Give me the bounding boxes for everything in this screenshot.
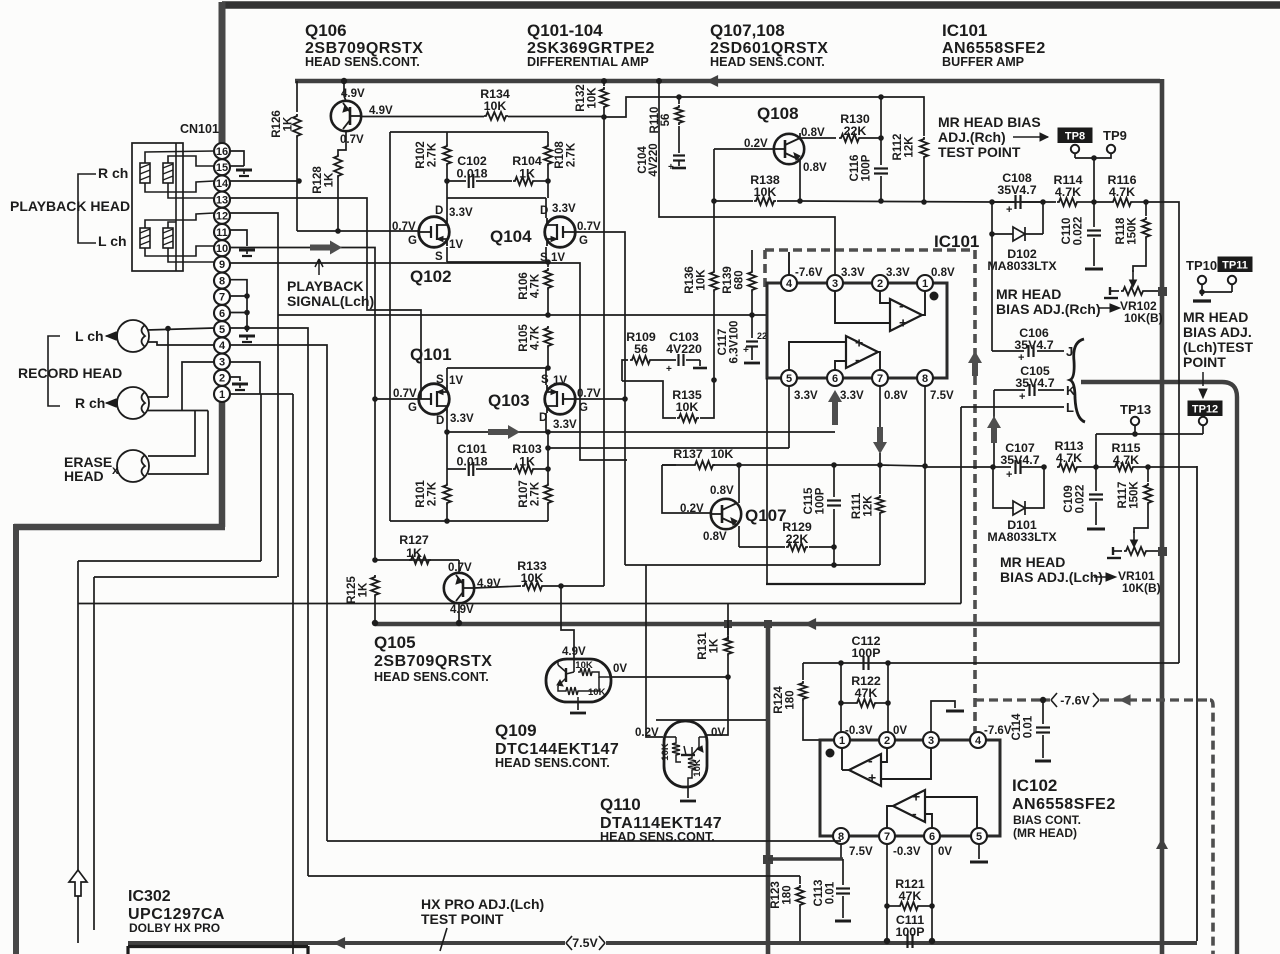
- svg-text:0.018: 0.018: [456, 167, 487, 181]
- svg-text:3: 3: [219, 356, 225, 368]
- svg-text:7: 7: [884, 831, 890, 843]
- svg-text:10K: 10K: [692, 759, 703, 777]
- svg-text:13: 13: [216, 194, 228, 206]
- digital transistor Q109: [546, 659, 611, 702]
- svg-text:1V: 1V: [553, 375, 567, 387]
- svg-text:+: +: [1019, 391, 1025, 403]
- ground pin16: [236, 169, 252, 172]
- wire opamp B out to pin7: [878, 352, 880, 370]
- junction pin7 column rail: [877, 462, 883, 468]
- capacitor C112: [862, 656, 864, 670]
- label -7.6V bubble: [1051, 693, 1099, 707]
- junction R106 R105 node: [545, 312, 551, 318]
- svg-text:4.9V: 4.9V: [562, 646, 586, 658]
- svg-text:TP13: TP13: [1120, 402, 1151, 417]
- svg-text:3: 3: [832, 278, 838, 290]
- svg-text:Q101-104: Q101-104: [527, 21, 603, 40]
- svg-text:6: 6: [929, 831, 935, 843]
- resistor R111: [879, 465, 881, 494]
- wire pin1 right down-left loop: [230, 393, 293, 395]
- connector CN101 pin 11: [214, 224, 230, 240]
- svg-text:-: -: [868, 753, 873, 769]
- wire erase head top: [148, 411, 195, 457]
- wire L to x961 column: [961, 406, 1064, 408]
- IC101 opamp B: [846, 336, 878, 368]
- svg-text:4.7K: 4.7K: [530, 325, 542, 350]
- svg-text:IC101: IC101: [942, 21, 987, 40]
- svg-text:1K: 1K: [519, 167, 535, 181]
- svg-text:RECORD HEAD: RECORD HEAD: [18, 365, 122, 381]
- resistor R105: [544, 326, 552, 348]
- svg-text:7.5V: 7.5V: [930, 390, 954, 402]
- svg-text:1: 1: [922, 278, 928, 290]
- svg-text:HEAD SENS.CONT.: HEAD SENS.CONT.: [600, 830, 715, 844]
- wire opamp B out to pin7: [887, 806, 893, 828]
- svg-text:4.9V: 4.9V: [369, 105, 393, 117]
- IC101 pin 2: [872, 275, 888, 291]
- capacitor C114: [1042, 700, 1044, 724]
- svg-text:S: S: [435, 251, 443, 263]
- label 7.5V bubble on bus: [566, 936, 605, 950]
- svg-text:+: +: [666, 364, 672, 375]
- svg-text:56: 56: [634, 342, 648, 356]
- svg-text:R108: R108: [554, 141, 566, 169]
- svg-text:R125: R125: [346, 576, 358, 604]
- wire thick vertical to CN101 pin16: [219, 2, 226, 146]
- svg-text:4: 4: [219, 340, 226, 352]
- wire x=961 up to L wire: [960, 407, 962, 604]
- erase head circle: [117, 450, 149, 482]
- resistor R101: [446, 469, 448, 483]
- IC101 pin 1: [917, 275, 933, 291]
- svg-text:R111: R111: [851, 492, 863, 519]
- svg-text:HEAD SENS.CONT.: HEAD SENS.CONT.: [305, 55, 420, 69]
- wire R130 to top rail: [861, 137, 881, 139]
- svg-text:DOLBY HX PRO: DOLBY HX PRO: [129, 921, 220, 935]
- junction R131 bottom: [725, 674, 731, 680]
- svg-text:5: 5: [786, 373, 792, 385]
- svg-text:100P: 100P: [896, 925, 925, 939]
- capacitor C108 electrolytic: [989, 199, 995, 205]
- wire pin4 stub to dashed: [788, 252, 790, 275]
- svg-text:10K: 10K: [521, 571, 544, 585]
- junction pin8 column rail: [922, 463, 928, 469]
- svg-text:4: 4: [786, 278, 793, 290]
- svg-text:7.5V: 7.5V: [849, 846, 873, 858]
- junction C115 bottom: [831, 544, 837, 550]
- wire x646 vertical to Q110: [646, 565, 663, 737]
- svg-text:-7.6V: -7.6V: [1060, 694, 1090, 708]
- svg-text:0.8V: 0.8V: [931, 267, 955, 279]
- svg-text:MR HEAD: MR HEAD: [1183, 309, 1248, 325]
- svg-text:7: 7: [219, 292, 225, 304]
- resistor R108: [547, 132, 549, 144]
- wire C107 row: [925, 466, 1011, 468]
- junction C107 left: [990, 464, 996, 470]
- wire R109 C103 row: [622, 360, 628, 381]
- wire C106 row: [992, 350, 1024, 352]
- wire pin2 to opamp A: [880, 291, 890, 303]
- junction R122 row: [838, 700, 844, 706]
- svg-text:HEAD SENS.CONT.: HEAD SENS.CONT.: [495, 756, 610, 770]
- wire record R pin4 column x=327: [230, 345, 327, 841]
- wire rail corner into R112: [920, 97, 924, 136]
- ground pin11: [239, 249, 255, 252]
- test point TP11: [1218, 257, 1252, 272]
- wire Q108 base left: [714, 148, 774, 150]
- wire pin6 to opamp B minus: [835, 361, 846, 370]
- arrowhead on dashed line: [1119, 694, 1131, 706]
- wire pin8 column down to y584: [924, 466, 926, 584]
- wire right vertical x=1197 from R115: [1196, 466, 1198, 941]
- junction dot dashed line: [1040, 697, 1046, 703]
- svg-text:C110: C110: [1061, 218, 1073, 245]
- svg-text:(Lch)TEST: (Lch)TEST: [1183, 339, 1253, 355]
- svg-text:100P: 100P: [861, 154, 873, 181]
- arrowhead up on x=1162: [1156, 838, 1168, 849]
- svg-text:R131: R131: [697, 632, 709, 660]
- svg-text:6: 6: [219, 308, 225, 320]
- connector CN101 pin 12: [214, 208, 230, 224]
- wire erase head bottom down: [148, 411, 208, 475]
- svg-text:4: 4: [975, 735, 982, 747]
- wire pin5 to record L head: [147, 328, 214, 330]
- svg-text:1K: 1K: [283, 116, 295, 131]
- wire TP10 TP11 to ground: [1201, 284, 1203, 296]
- capacitor C106 electrolytic: [1027, 345, 1029, 357]
- svg-text:L: L: [1066, 400, 1074, 415]
- svg-text:0V: 0V: [938, 846, 952, 858]
- svg-text:0.2V: 0.2V: [680, 503, 704, 515]
- ground pin2: [232, 383, 248, 386]
- svg-text:+: +: [855, 335, 863, 351]
- junction R135 node: [711, 377, 717, 383]
- svg-text:Q102: Q102: [410, 267, 452, 286]
- label PLAYBACK SIGNAL(Lch): [315, 259, 323, 275]
- brace J K L: [1070, 339, 1085, 422]
- IC101 pin 7: [872, 370, 888, 386]
- svg-text:Q105: Q105: [374, 633, 416, 652]
- dashed -7.6V line horizontal: [975, 698, 1050, 701]
- junction bottom rail: [444, 518, 450, 524]
- wire thick left border vertical: [13, 524, 19, 954]
- connector CN101 pin 15: [214, 159, 230, 175]
- svg-text:1K: 1K: [406, 546, 422, 560]
- svg-text:Q107: Q107: [745, 506, 787, 525]
- wire y=663 rail: [803, 662, 1179, 664]
- svg-text:PLAYBACK HEAD: PLAYBACK HEAD: [10, 198, 130, 214]
- wire C108 row y=202: [992, 201, 1056, 203]
- IC101 pin 3: [827, 275, 843, 291]
- svg-text:0.022: 0.022: [1073, 217, 1085, 246]
- wire drain rail Q102-Q104: [447, 197, 546, 199]
- wire y565 rail: [625, 564, 880, 566]
- svg-text:R ch: R ch: [75, 395, 105, 411]
- svg-text:7.5V: 7.5V: [572, 936, 598, 950]
- junction R121 row: [884, 903, 890, 909]
- svg-text:6: 6: [832, 373, 838, 385]
- junction R115 right: [1145, 464, 1151, 470]
- svg-text:Q103: Q103: [488, 391, 530, 410]
- svg-text:10K: 10K: [754, 185, 777, 199]
- resistor R123: [799, 876, 801, 884]
- resistor R107: [544, 483, 552, 505]
- TP12 pin: [1199, 417, 1207, 425]
- svg-text:180: 180: [785, 690, 797, 709]
- arrowhead on bus y=624: [804, 618, 816, 630]
- junction C115 top: [831, 462, 837, 468]
- connector CN101 pin 7: [214, 289, 230, 305]
- svg-text:+: +: [868, 770, 876, 786]
- diode D102: [991, 202, 993, 234]
- svg-text:+: +: [743, 345, 749, 356]
- svg-text:4.9V: 4.9V: [450, 604, 474, 616]
- IC101 marker dot: [930, 292, 939, 301]
- junction R114 right: [1091, 199, 1097, 205]
- svg-text:9: 9: [219, 259, 225, 271]
- IC102 opamp B: [893, 790, 925, 822]
- wire pin6 to opamp B minus: [925, 814, 932, 828]
- capacitor C103 electrolytic: [652, 359, 676, 361]
- wire Q102 gate feed: [297, 230, 420, 232]
- IC302 box outline: [128, 945, 308, 948]
- resistor R132: [603, 81, 605, 86]
- white arrow up left: [69, 870, 87, 896]
- IC101 pin 8: [917, 370, 933, 386]
- wire bus corner to R126: [296, 81, 298, 112]
- wire thick from CN101 pin1 down: [219, 399, 226, 527]
- gray arrow up on C105 column: [987, 416, 1001, 443]
- wire pin3 to opamp A plus: [835, 291, 890, 323]
- svg-text:+: +: [668, 162, 674, 173]
- junction Q101 drain arrow wire: [444, 429, 450, 435]
- wire pin1 long drop x=293: [292, 394, 294, 954]
- svg-text:0.7V: 0.7V: [340, 134, 364, 146]
- resistor R138: [714, 200, 753, 202]
- wire Q101 gate: [375, 398, 420, 400]
- svg-text:R128: R128: [312, 166, 324, 194]
- resistor R117: [1147, 467, 1149, 482]
- resistor R127: [409, 556, 431, 564]
- svg-text:2.7K: 2.7K: [530, 481, 542, 506]
- transistor Q105: [444, 573, 474, 603]
- svg-text:11: 11: [216, 227, 228, 239]
- transistor Q102 FET: [419, 217, 450, 248]
- svg-text:D: D: [436, 415, 444, 427]
- svg-text:R127: R127: [399, 533, 429, 547]
- wire pin6 down: [931, 844, 933, 941]
- gray arrow into pin6: [828, 390, 842, 425]
- wire R133 to R132 column: [544, 585, 604, 587]
- svg-text:10K: 10K: [575, 660, 593, 671]
- svg-text:+: +: [912, 789, 920, 805]
- transistor Q103 FET: [545, 384, 576, 415]
- svg-text:0.8V: 0.8V: [703, 531, 727, 543]
- wire pin3 to opamp A plus: [881, 748, 931, 779]
- connector CN101 pin 13: [214, 192, 230, 208]
- junction R126 pin14: [296, 178, 302, 184]
- wire main bus y=81: [295, 79, 1160, 83]
- svg-text:R139: R139: [722, 266, 734, 294]
- svg-text:0.8V: 0.8V: [710, 485, 734, 497]
- svg-text:2.7K: 2.7K: [427, 481, 439, 506]
- svg-text:150K: 150K: [1127, 217, 1139, 245]
- IC102 marker dot: [826, 749, 835, 758]
- svg-text:TEST POINT: TEST POINT: [421, 911, 504, 927]
- junction R110 top: [676, 94, 682, 100]
- connector CN101 pin 16: [214, 143, 230, 159]
- wire pin9 right: [230, 263, 627, 460]
- svg-text:TP9: TP9: [1103, 128, 1127, 143]
- test point TP12: [1188, 401, 1222, 416]
- svg-text:3.3V: 3.3V: [840, 390, 864, 402]
- wire R135 row: [622, 381, 676, 418]
- svg-text:(MR HEAD): (MR HEAD): [1013, 826, 1077, 840]
- wire thick top border bus: [222, 1, 1280, 9]
- gray arrow down under pin7: [873, 427, 887, 454]
- bracket record labels: [48, 336, 60, 406]
- wire Q101 drain down: [446, 413, 448, 469]
- gray arrow playback signal: [310, 241, 342, 255]
- svg-text:R137: R137: [673, 447, 703, 461]
- wire opamp A out to pin1: [922, 291, 925, 315]
- diode D101 loop: [993, 467, 1013, 508]
- resistor R122: [841, 702, 855, 704]
- connector CN101 pin 10: [214, 240, 230, 256]
- capacitor C109: [1095, 467, 1097, 491]
- wire y=448 rail: [548, 447, 789, 449]
- wire pin14 to R126: [230, 180, 299, 182]
- resistor R134: [484, 112, 508, 120]
- wire y=97 rail: [604, 97, 920, 117]
- svg-text:22K: 22K: [786, 532, 809, 546]
- resistor R114: [1057, 198, 1079, 206]
- playback head L winding 1: [140, 228, 150, 248]
- IC102 opamp A: [849, 754, 881, 786]
- wire y=876 rail: [308, 875, 800, 877]
- resistor R139: [751, 250, 753, 270]
- svg-text:0.8V: 0.8V: [884, 390, 908, 402]
- wire pin2 ground: [230, 377, 240, 381]
- resistor R136: [713, 201, 715, 270]
- svg-text:L ch: L ch: [98, 233, 127, 249]
- IC102 pin 1: [834, 732, 850, 748]
- wire y=202 rail to C108: [800, 201, 992, 202]
- ground TP10: [1193, 299, 1211, 302]
- svg-text:10K: 10K: [676, 400, 699, 414]
- svg-text:TP10: TP10: [1186, 258, 1217, 273]
- svg-text:MA8033LTX: MA8033LTX: [987, 259, 1057, 273]
- svg-text:AN6558SFE2: AN6558SFE2: [1012, 796, 1116, 813]
- svg-text:BUFFER AMP: BUFFER AMP: [942, 55, 1024, 69]
- wire Q106 emitter to bus: [341, 78, 347, 84]
- svg-text:12: 12: [216, 211, 228, 223]
- leader line to test point: [440, 928, 447, 951]
- svg-text:180: 180: [782, 885, 794, 904]
- svg-text:MA8033LTX: MA8033LTX: [987, 530, 1057, 544]
- svg-text:-7.6V: -7.6V: [795, 267, 823, 279]
- svg-text:R101: R101: [415, 480, 427, 508]
- svg-text:1K: 1K: [709, 638, 721, 653]
- gray arrow drain output: [488, 425, 520, 439]
- svg-text:2SB709QRSTX: 2SB709QRSTX: [374, 653, 492, 670]
- resistor R104: [513, 177, 535, 185]
- svg-text:10K(B): 10K(B): [1124, 311, 1163, 325]
- svg-text:MR HEAD BIAS: MR HEAD BIAS: [938, 114, 1041, 130]
- junction source node Q101 Q103: [545, 365, 551, 371]
- TP13 pin: [1131, 417, 1139, 425]
- svg-text:x: x: [112, 463, 119, 477]
- svg-text:+: +: [1018, 352, 1024, 364]
- capacitor C105 electrolytic: [994, 389, 1025, 391]
- svg-text:G: G: [408, 402, 417, 414]
- connector CN101 pin 6: [214, 305, 230, 321]
- svg-text:L ch: L ch: [75, 328, 104, 344]
- svg-text:3.3V: 3.3V: [794, 390, 818, 402]
- svg-text:1K: 1K: [324, 172, 336, 187]
- test point TP8: [1058, 128, 1092, 143]
- svg-text:1: 1: [219, 389, 225, 401]
- svg-text:C117: C117: [717, 329, 729, 356]
- svg-text:S: S: [436, 374, 444, 386]
- junction R103 right: [545, 466, 551, 472]
- svg-text:680: 680: [734, 270, 746, 289]
- playback head R winding 2: [163, 163, 173, 183]
- arrow to TP8: [1013, 136, 1048, 138]
- svg-text:C114: C114: [1011, 713, 1023, 740]
- svg-text:Q104: Q104: [490, 227, 532, 246]
- capacitor C107 electrolytic: [1014, 460, 1016, 474]
- svg-text:TEST POINT: TEST POINT: [938, 144, 1021, 160]
- svg-text:1K: 1K: [519, 455, 535, 469]
- svg-text:5: 5: [976, 831, 982, 843]
- svg-text:2: 2: [877, 278, 883, 290]
- junction VR102 thick line: [1158, 287, 1167, 296]
- junction R128 gate wire: [335, 228, 341, 234]
- svg-text:15: 15: [216, 162, 228, 174]
- svg-text:MR HEAD: MR HEAD: [996, 286, 1061, 302]
- svg-text:4V220: 4V220: [666, 342, 702, 356]
- svg-text:Q106: Q106: [305, 21, 347, 40]
- junction R139 bottom: [749, 312, 755, 318]
- wire pin15 to ground rail: [230, 165, 244, 167]
- resistor R125: [371, 575, 379, 597]
- wire pin11 ground: [230, 230, 247, 246]
- wire thick vertical x=768: [766, 622, 771, 954]
- wire x=767 from IC101 body corner down: [766, 378, 768, 584]
- capacitor C110: [1093, 202, 1095, 227]
- wire y=604 long link: [78, 603, 961, 605]
- resistor R129: [786, 543, 808, 551]
- wire R126 to gate wire: [296, 138, 298, 231]
- wire Q107 collector: [738, 465, 740, 503]
- junction Q103 drain: [545, 429, 551, 435]
- connector CN101 pin 9: [214, 256, 230, 272]
- wire thick bottom bus y=943: [128, 941, 565, 945]
- svg-text:IC302: IC302: [128, 888, 171, 905]
- wire pin8 down to y859: [840, 844, 842, 859]
- svg-text:R106: R106: [518, 272, 530, 300]
- svg-text:MR HEAD: MR HEAD: [1000, 554, 1065, 570]
- svg-text:12K: 12K: [904, 136, 916, 158]
- svg-text:C115: C115: [803, 487, 815, 514]
- wire Q106 base to R134: [361, 116, 484, 118]
- resistor R109: [630, 356, 652, 364]
- IC101 dashed outline top: [765, 248, 975, 252]
- svg-text:0V: 0V: [893, 725, 907, 737]
- transistor Q107: [711, 499, 741, 529]
- svg-text:10K: 10K: [660, 743, 671, 761]
